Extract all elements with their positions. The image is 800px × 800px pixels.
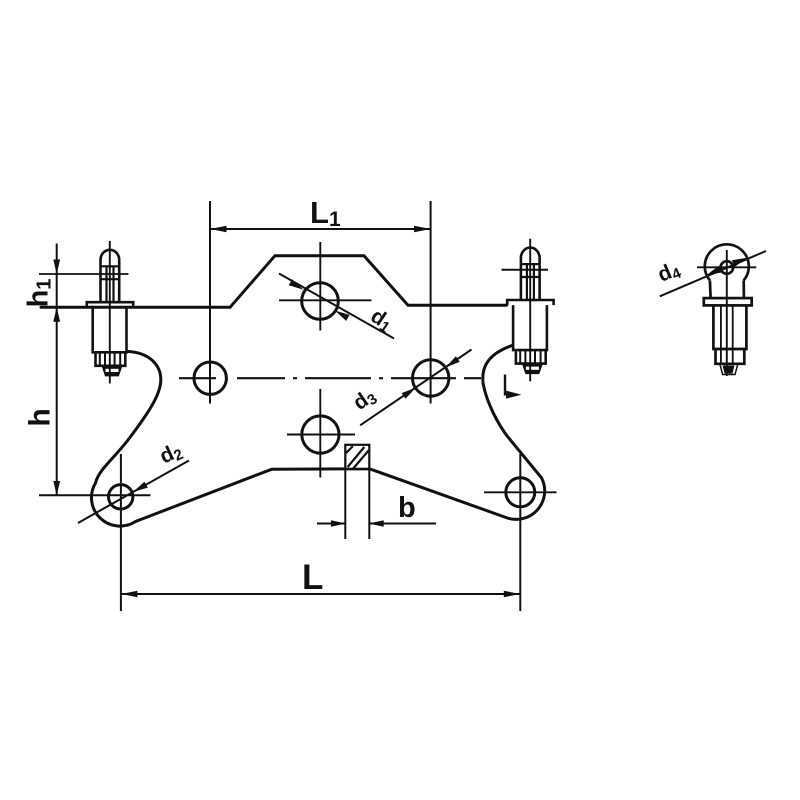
hole d3: [413, 360, 449, 396]
view direction mark L: [505, 375, 522, 399]
h1 extension line across ball: [39, 273, 129, 275]
centerlines: [726, 250, 728, 376]
nut: [96, 352, 126, 366]
svg-text:L1: L1: [310, 195, 341, 231]
inner neck lines: [105, 267, 107, 302]
plate bottom-left lobe: [91, 483, 135, 526]
plate right S-curve edge: [483, 346, 542, 478]
collar: [87, 302, 133, 307]
svg-text:d1: d1: [366, 304, 397, 336]
svg-text:d3: d3: [349, 384, 381, 417]
ball head outline: [101, 250, 120, 302]
leader d4: [660, 251, 766, 296]
head hole: [721, 261, 734, 274]
body: [713, 305, 746, 349]
plate bottom-right lobe: [506, 478, 545, 520]
leader d3: [360, 350, 471, 426]
dash-dot centerline through middle holes: [179, 377, 481, 379]
tip: [720, 364, 738, 375]
centerline: [109, 241, 111, 384]
hatched square section b: [345, 445, 369, 469]
tip: [102, 366, 121, 376]
leader d2: [78, 461, 189, 524]
svg-text:h1: h1: [23, 279, 56, 308]
plate hump: [230, 256, 507, 308]
svg-text:h: h: [24, 408, 57, 426]
dimension h1 / h: [39, 244, 151, 496]
collar: [704, 298, 752, 305]
head ring: [705, 244, 749, 280]
dimension b: [317, 470, 436, 539]
nut: [716, 349, 745, 364]
svg-text:d4: d4: [654, 257, 684, 289]
hole d2: [109, 485, 133, 509]
hole left-middle: [194, 362, 226, 394]
plate left S-curve edge: [96, 352, 161, 484]
right stud crossing tick: [502, 269, 549, 271]
hole center: [302, 416, 339, 453]
leader d1: [279, 274, 394, 339]
d4 detail stud: [697, 244, 756, 376]
dimension L1: [210, 201, 431, 404]
hole d1: [302, 283, 339, 320]
svg-text:L: L: [302, 558, 323, 597]
plate top edge left segment: [41, 306, 230, 309]
ball equator line: [101, 265, 120, 267]
ball lower line: [101, 278, 120, 280]
neck: [709, 280, 712, 298]
svg-text:b: b: [398, 492, 416, 524]
dimension L bottom: [121, 454, 520, 611]
plate bottom edge: [136, 469, 507, 522]
left ball stud: [87, 241, 133, 384]
hole bottom-right: [506, 478, 535, 507]
hole centerlines: [279, 242, 557, 492]
right ball stud: [507, 239, 553, 381]
body: [93, 307, 127, 352]
